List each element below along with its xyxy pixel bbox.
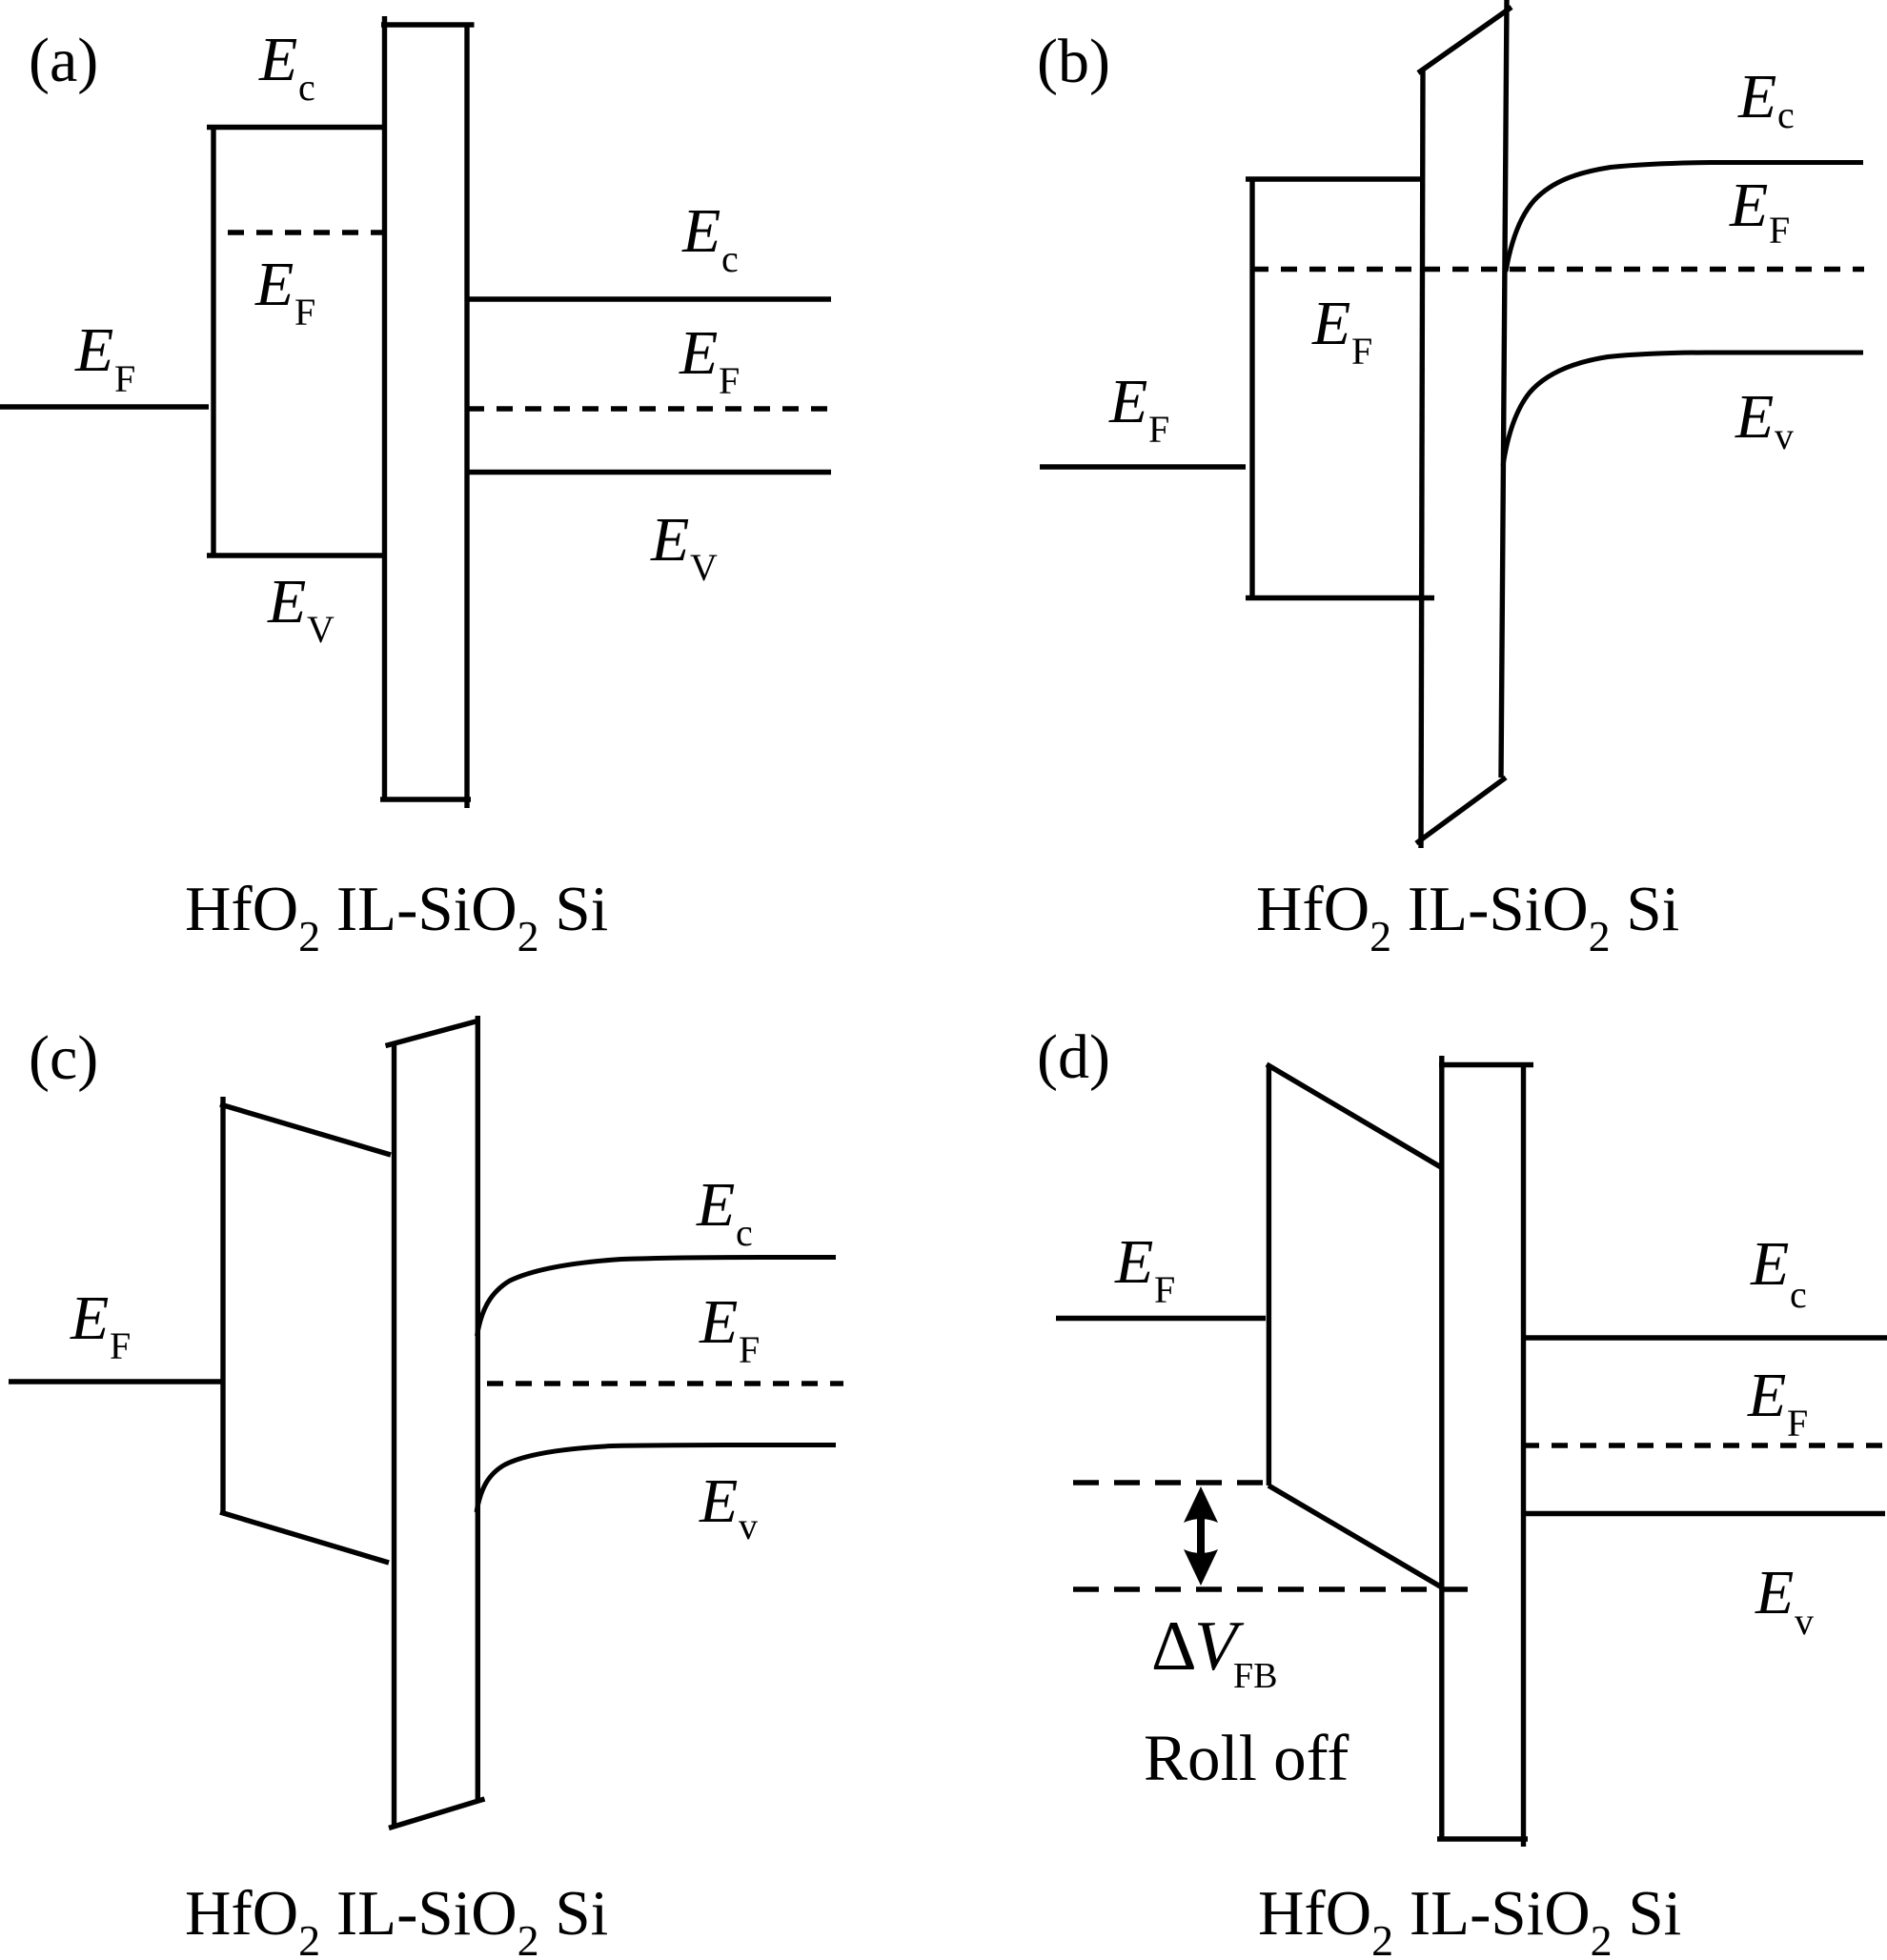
svg-text:E: E [1737, 62, 1776, 131]
metal Fermi level line E_F (c) [9, 1379, 223, 1384]
svg-text:(c): (c) [29, 1023, 98, 1093]
IL-SiO2 tilted barrier top edge (b) [1418, 8, 1512, 73]
HfO2 gate top edge (b) [1246, 176, 1423, 181]
Si valence band E_v line (d) [1523, 1511, 1885, 1516]
label E_c Si (d) [1750, 1229, 1807, 1316]
label E_c Si (c) [696, 1170, 753, 1254]
IL-SiO2 barrier bottom edge (a) [380, 797, 471, 801]
svg-text:F: F [1787, 1402, 1808, 1445]
svg-text:FB: FB [1233, 1656, 1277, 1696]
svg-text:E: E [70, 1283, 109, 1353]
label E_c Si (b) [1737, 62, 1795, 136]
Si Fermi dashed line (d) [1523, 1443, 1886, 1447]
IL-SiO2 barrier top edge (a) [381, 22, 475, 27]
label E_F Si (d) [1747, 1361, 1808, 1445]
IL-SiO2 barrier top edge (d) [1439, 1062, 1533, 1067]
svg-text:E: E [267, 567, 306, 636]
Si Fermi dashed line (c) [487, 1381, 843, 1385]
svg-text:E: E [650, 505, 689, 575]
svg-text:E: E [679, 318, 718, 388]
label E_F metal (a) [74, 315, 135, 400]
svg-text:E: E [258, 25, 297, 94]
label Roll off (d) [1144, 1722, 1349, 1794]
HfO2 gate left edge (b) [1249, 177, 1254, 598]
svg-text:E: E [699, 1287, 738, 1357]
panel label (b) [1037, 27, 1110, 96]
svg-text:(b): (b) [1037, 27, 1110, 96]
caption HfO2 IL-SiO2 Si (b) [1256, 874, 1679, 960]
svg-text:F: F [114, 357, 135, 400]
svg-text:F: F [1148, 408, 1169, 451]
IL-SiO2 barrier left edge (d) [1439, 1056, 1444, 1840]
IL-SiO2 tilted barrier bottom edge (b) [1416, 778, 1506, 843]
HfO2 gate left edge (a) [211, 125, 215, 556]
svg-text:F: F [110, 1324, 131, 1367]
svg-text:v: v [1795, 1600, 1814, 1643]
label E_V below HfO2 (a) [267, 567, 335, 651]
svg-text:E: E [1729, 171, 1768, 240]
svg-text:E: E [1311, 289, 1350, 358]
svg-text:c: c [721, 237, 739, 280]
svg-text:v: v [1775, 414, 1794, 457]
svg-text:E: E [696, 1170, 735, 1240]
label E_F inside HfO2 (a) [254, 250, 315, 333]
svg-text:E: E [681, 196, 720, 266]
svg-text:E: E [699, 1466, 738, 1536]
svg-text:HfO2 IL-SiO2 Si: HfO2 IL-SiO2 Si [185, 1878, 608, 1960]
caption HfO2 IL-SiO2 Si (d) [1258, 1878, 1681, 1960]
label E_F metal (d) [1114, 1227, 1175, 1311]
HfO2 gate bottom edge (b) [1246, 596, 1434, 600]
Si conduction band E_c line (d) [1523, 1335, 1887, 1340]
label E_v Si (c) [699, 1466, 758, 1547]
svg-text:F: F [1769, 209, 1790, 252]
metal Fermi level line E_F (b) [1040, 464, 1246, 469]
HfO2 tilted gate left edge (c) [220, 1097, 225, 1513]
label E_v Si (d) [1755, 1558, 1814, 1643]
svg-text:(d): (d) [1037, 1022, 1110, 1092]
svg-text:E: E [1735, 382, 1774, 452]
IL-SiO2 tilted barrier right edge (b) [1501, 0, 1507, 778]
label E_F Si (a) [679, 318, 740, 402]
svg-text:HfO2 IL-SiO2 Si: HfO2 IL-SiO2 Si [1258, 1878, 1681, 1960]
svg-text:E: E [1747, 1361, 1786, 1430]
IL-SiO2 tilted barrier bottom edge (c) [389, 1799, 485, 1829]
svg-text:c: c [736, 1211, 753, 1254]
svg-text:F: F [1154, 1268, 1175, 1311]
IL-SiO2 tilted barrier left edge (b) [1421, 71, 1423, 848]
metal Fermi level line E_F (d) [1056, 1316, 1266, 1321]
label E_v Si (b) [1735, 382, 1794, 457]
Fermi dashed line across structure (b) [1252, 267, 1864, 272]
flat-band reference dashed line lower (d) [1073, 1586, 1476, 1591]
panel label (c) [29, 1023, 98, 1093]
svg-text:E: E [1108, 367, 1147, 436]
Si valence band E_v line (a) [468, 470, 831, 475]
svg-text:F: F [739, 1328, 760, 1371]
label E_F inside HfO2 (b) [1311, 289, 1372, 373]
panel label (d) [1037, 1022, 1110, 1092]
HfO2 tilted gate left edge (d) [1267, 1065, 1271, 1486]
label E_F Si (b) [1729, 171, 1790, 252]
label E_F metal (c) [70, 1283, 131, 1367]
IL-SiO2 tilted barrier top edge (c) [386, 1020, 480, 1046]
caption HfO2 IL-SiO2 Si (c) [185, 1878, 608, 1960]
HfO2 tilted gate bottom edge (c) [220, 1512, 389, 1563]
svg-text:E: E [1755, 1558, 1794, 1627]
flat-band reference dashed line upper (d) [1073, 1480, 1268, 1485]
svg-text:F: F [719, 359, 740, 402]
IL-SiO2 barrier bottom edge (d) [1437, 1836, 1528, 1841]
label E_c Si (a) [681, 196, 739, 280]
IL-SiO2 barrier left edge (a) [382, 16, 387, 799]
svg-text:(a): (a) [29, 26, 98, 95]
HfO2 tilted gate top edge (c) [220, 1104, 391, 1155]
svg-text:E: E [254, 250, 294, 319]
IL-SiO2 tilted barrier left edge (c) [392, 1044, 396, 1826]
svg-text:E: E [74, 315, 113, 385]
label E_F Si (c) [699, 1287, 760, 1371]
metal Fermi level line E_F (a) [0, 404, 209, 409]
HfO2 gate bottom edge (a) [207, 553, 385, 557]
Si valence band bending curve E_v (c) [477, 1445, 836, 1513]
svg-text:F: F [294, 291, 315, 333]
svg-text:c: c [298, 66, 315, 109]
svg-text:V: V [690, 546, 718, 589]
svg-text:c: c [1790, 1273, 1807, 1316]
Si valence band bending curve E_v (b) [1503, 353, 1863, 466]
HfO2 gate top edge (a) [207, 125, 385, 130]
Si conduction band E_c line (a) [468, 296, 831, 301]
HfO2 Fermi dashed line (a) [228, 230, 384, 234]
svg-text:F: F [1351, 330, 1372, 373]
svg-text:c: c [1777, 93, 1795, 136]
svg-text:v: v [739, 1505, 758, 1547]
Si Fermi dashed line (a) [468, 406, 827, 411]
caption HfO2 IL-SiO2 Si (a) [185, 874, 608, 960]
Si conduction band bending curve E_c (b) [1506, 163, 1863, 273]
label E_V Si (a) [650, 505, 718, 589]
HfO2 tilted gate bottom edge (d) [1268, 1485, 1442, 1587]
svg-text:V: V [307, 608, 335, 651]
IL-SiO2 barrier right edge (d) [1521, 1062, 1526, 1847]
svg-text:E: E [1750, 1229, 1789, 1299]
IL-SiO2 barrier right edge (a) [464, 23, 469, 808]
label E_c above HfO2 (a) [258, 25, 315, 109]
Si conduction band bending curve E_c (c) [477, 1258, 837, 1337]
HfO2 tilted gate top edge (d) [1267, 1064, 1441, 1167]
label delta V_FB (d) [1151, 1607, 1277, 1696]
svg-text:Δ: Δ [1151, 1607, 1197, 1686]
IL-SiO2 tilted barrier right edge (c) [476, 1016, 480, 1799]
delta V_FB double arrow (d) [1184, 1486, 1218, 1586]
svg-text:E: E [1114, 1227, 1153, 1297]
svg-text:Roll off: Roll off [1144, 1722, 1349, 1794]
label E_F metal (b) [1108, 367, 1169, 451]
panel label (a) [29, 26, 98, 95]
